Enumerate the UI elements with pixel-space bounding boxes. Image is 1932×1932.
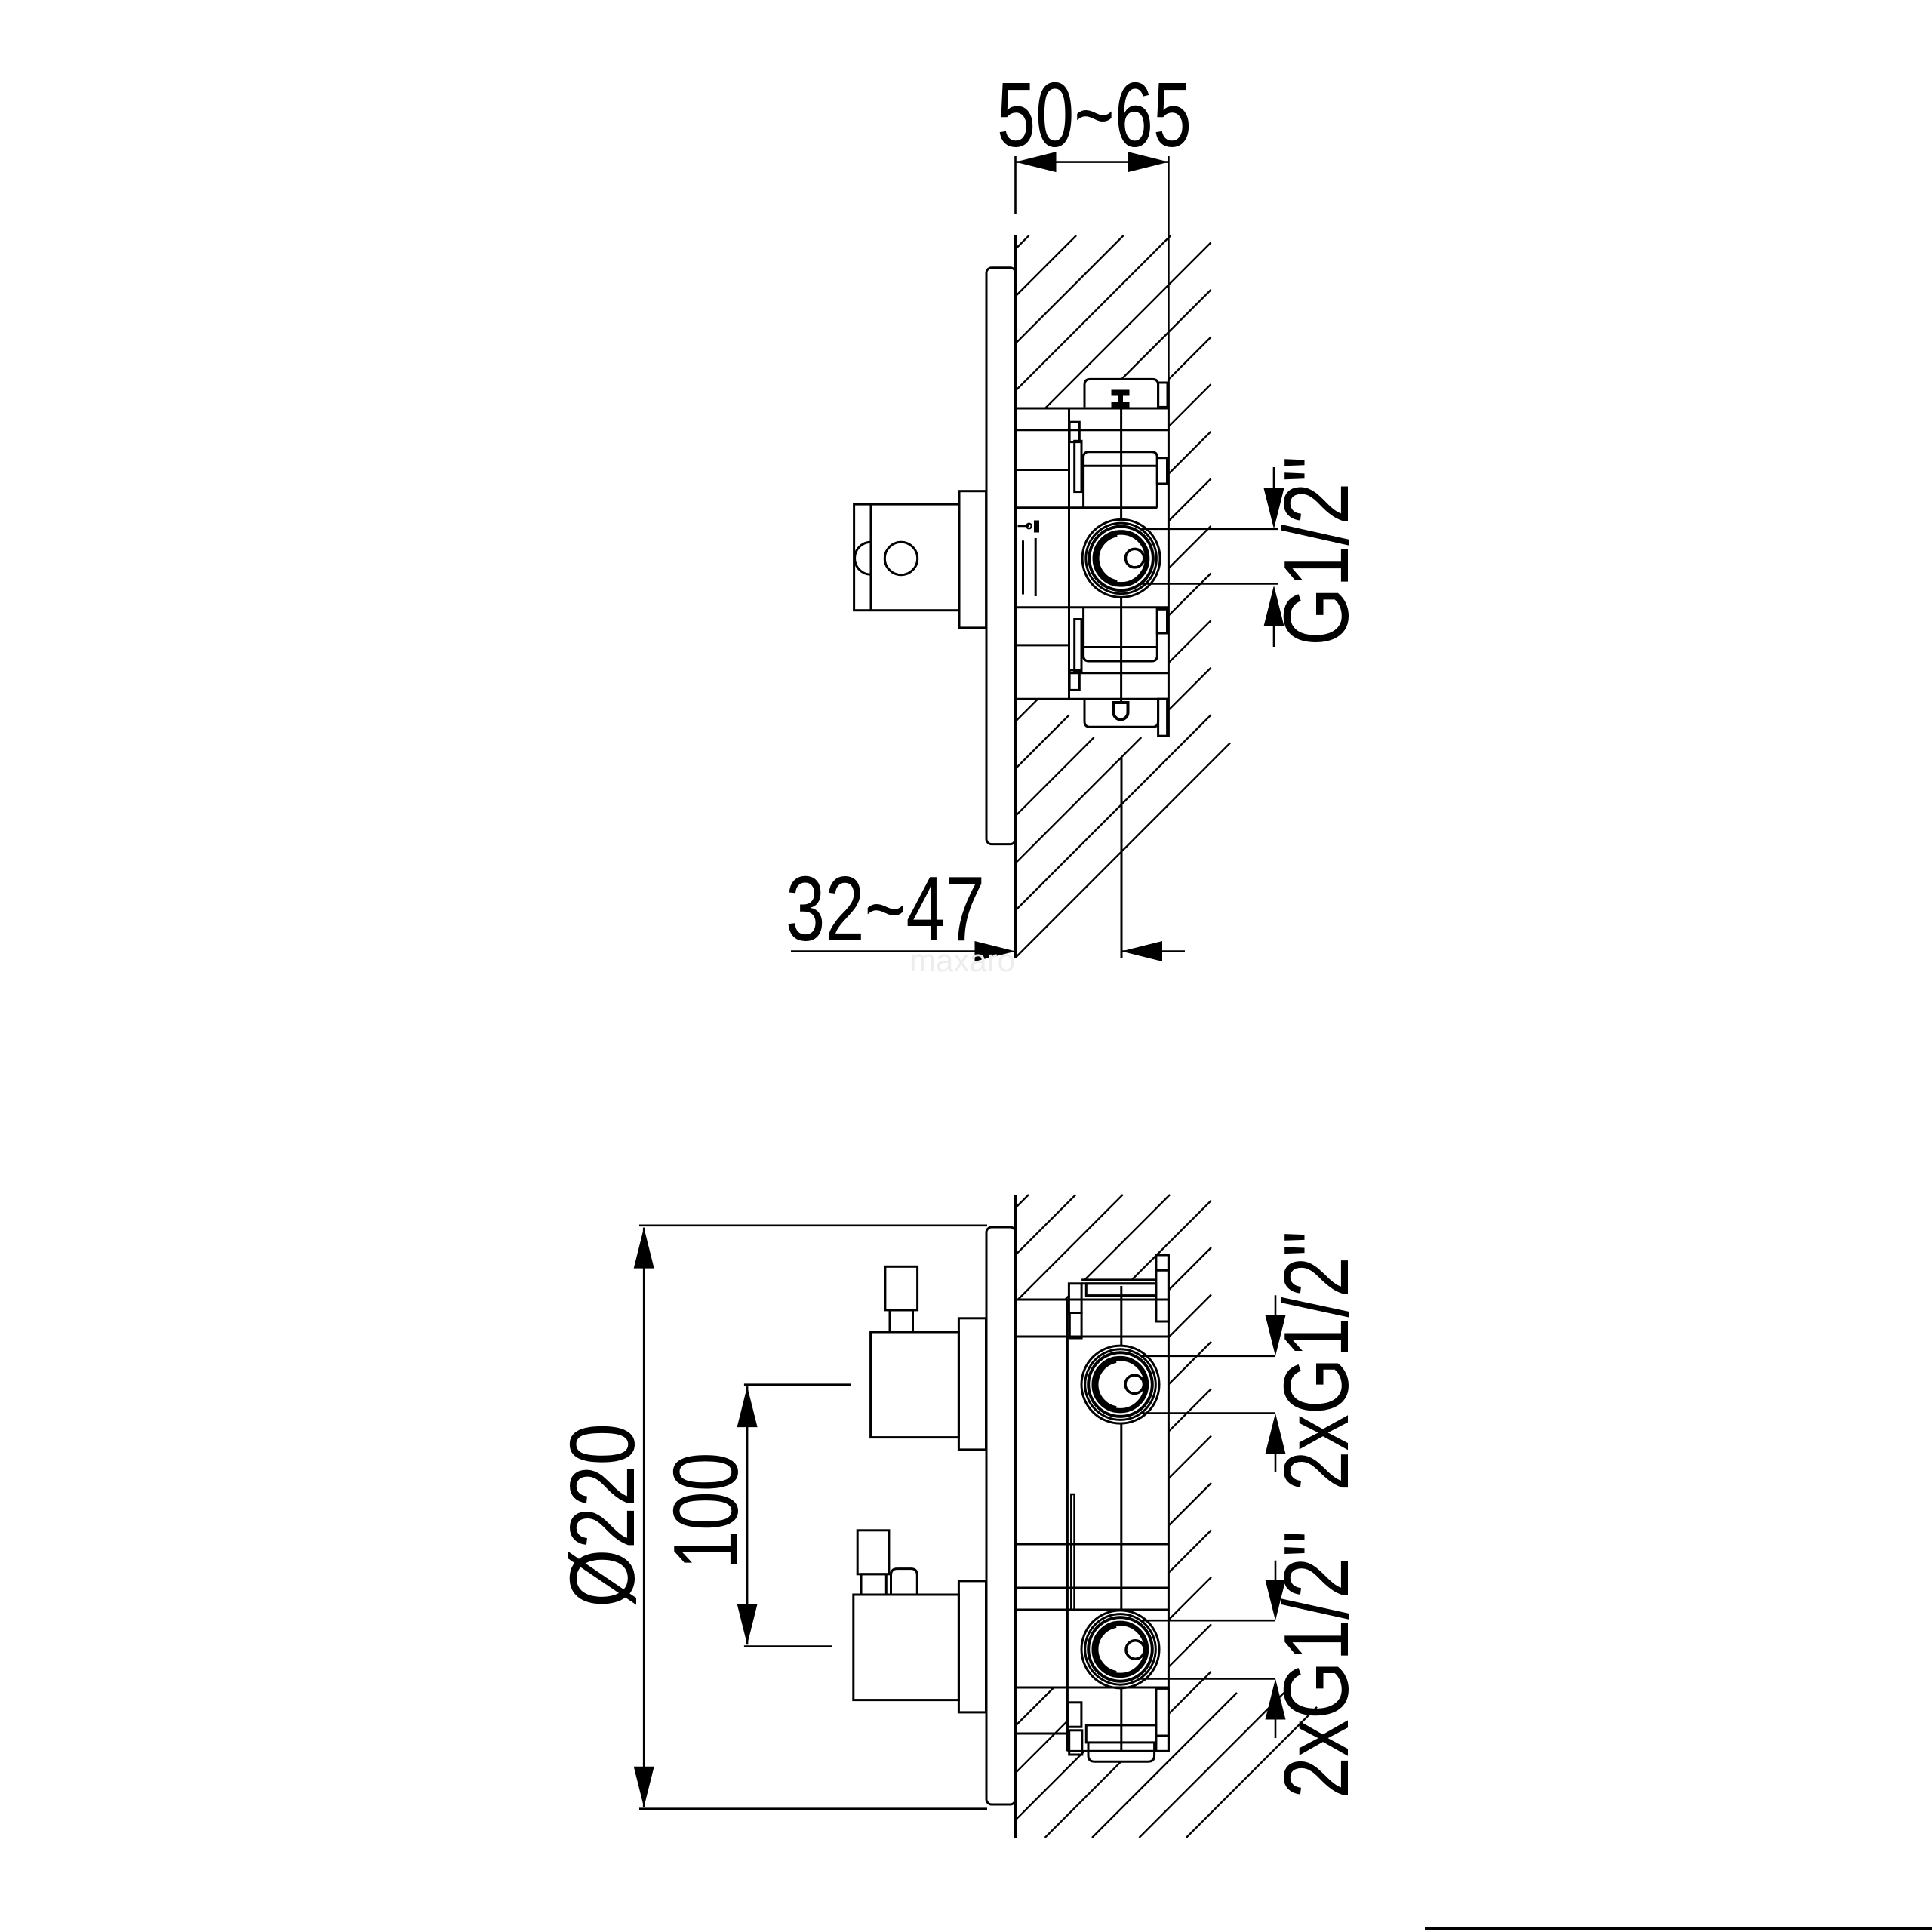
handle body (side view) bbox=[854, 504, 959, 611]
dimension 32~47 arrows bbox=[791, 950, 975, 952]
lower handle stems bbox=[857, 1531, 889, 1574]
dimension 100 line bbox=[746, 1386, 749, 1644]
wall hatch (bottom figure) bbox=[1016, 1195, 1318, 1838]
port inner small circle bbox=[1125, 549, 1143, 567]
upper handle connector bbox=[958, 1318, 986, 1450]
body center line (front) bbox=[1120, 1286, 1122, 1346]
body internal horizontals bbox=[1016, 1336, 1169, 1338]
svg-text:2xG1/2": 2xG1/2" bbox=[1265, 1531, 1367, 1798]
svg-text:50~65: 50~65 bbox=[997, 63, 1192, 166]
handle end cap line bbox=[870, 504, 872, 611]
handle connector block bbox=[959, 491, 986, 628]
dimension 50~65 line with arrows bbox=[1016, 161, 1169, 163]
lower handle connector bbox=[958, 1581, 986, 1712]
extension line right bbox=[1168, 156, 1170, 379]
left mounting tab upper bbox=[1069, 422, 1079, 441]
top inlet fitting bbox=[1081, 1278, 1156, 1281]
body internal horizontal lines bbox=[1016, 429, 1169, 431]
bottom outlet fitting bbox=[1086, 1725, 1155, 1743]
wall hatch (top figure) bbox=[1016, 235, 1231, 958]
top fitting nut bbox=[1156, 1255, 1169, 1321]
upper 2xG1/2 leader lines bbox=[1142, 1355, 1275, 1358]
top fitting left stubs bbox=[1069, 1284, 1081, 1313]
handle grip semicircle bbox=[855, 542, 872, 574]
upper port circles bbox=[1081, 1346, 1159, 1423]
valve top cap bbox=[1084, 379, 1158, 407]
svg-text:100: 100 bbox=[654, 1453, 757, 1570]
bottom fitting left stubs bbox=[1068, 1703, 1081, 1727]
valve bottom cap bbox=[1084, 699, 1158, 727]
svg-text:G1/2": G1/2" bbox=[1265, 456, 1367, 646]
dimension Ø220 extension lines bbox=[639, 1225, 987, 1227]
handle hole circle bbox=[884, 542, 917, 574]
set screw detail on flange bbox=[1018, 525, 1029, 528]
valve body outline (front) bbox=[1016, 1299, 1169, 1301]
bottom page border line bbox=[1425, 1927, 1932, 1930]
upper 2xG1/2 arrows bbox=[1275, 1295, 1277, 1319]
dimension 100 extension lines bbox=[744, 1383, 851, 1386]
bottom screw slot (D shape) bbox=[1114, 703, 1128, 720]
lower 2xG1/2 leader lines bbox=[1142, 1620, 1275, 1622]
cartridge lower cap bbox=[1084, 608, 1158, 661]
wall face line (bottom figure) bbox=[1014, 1195, 1017, 1838]
lower handle body bbox=[854, 1595, 959, 1700]
left tab line bbox=[1071, 1494, 1074, 1610]
valve body outline bbox=[1016, 408, 1169, 410]
wall face line bbox=[1014, 235, 1017, 958]
top screw slot bbox=[1112, 390, 1129, 395]
right side blocks bbox=[1157, 458, 1167, 484]
bottom fitting nut bbox=[1156, 1688, 1169, 1751]
svg-text:2xG1/2": 2xG1/2" bbox=[1265, 1231, 1367, 1491]
upper handle stem bbox=[885, 1266, 918, 1310]
lower port circles bbox=[1081, 1611, 1159, 1688]
G1/2 dimension arrows bbox=[1273, 467, 1275, 492]
cartridge upper cap bbox=[1084, 452, 1158, 508]
escutcheon plate (front) bbox=[986, 1227, 1016, 1804]
upper handle body bbox=[871, 1332, 959, 1438]
escutcheon plate (side view) bbox=[986, 268, 1016, 844]
center reference line below body bbox=[1121, 758, 1123, 958]
body center line bbox=[1120, 408, 1122, 518]
extension line left (wall face top) bbox=[1014, 156, 1017, 214]
bottom fitting cap bbox=[1088, 1743, 1155, 1761]
body right edge in wall bbox=[1168, 379, 1170, 737]
connection port circles bbox=[1082, 519, 1160, 597]
valve top cap right nub bbox=[1158, 383, 1168, 407]
left mounting tab lower bbox=[1075, 620, 1081, 672]
dimension Ø220 line bbox=[643, 1228, 645, 1807]
svg-text:Ø220: Ø220 bbox=[551, 1423, 654, 1607]
lower 2xG1/2 arrows bbox=[1275, 1561, 1277, 1583]
svg-text:maxaro: maxaro bbox=[909, 943, 1015, 978]
G1/2 leader lines bbox=[1142, 528, 1278, 530]
